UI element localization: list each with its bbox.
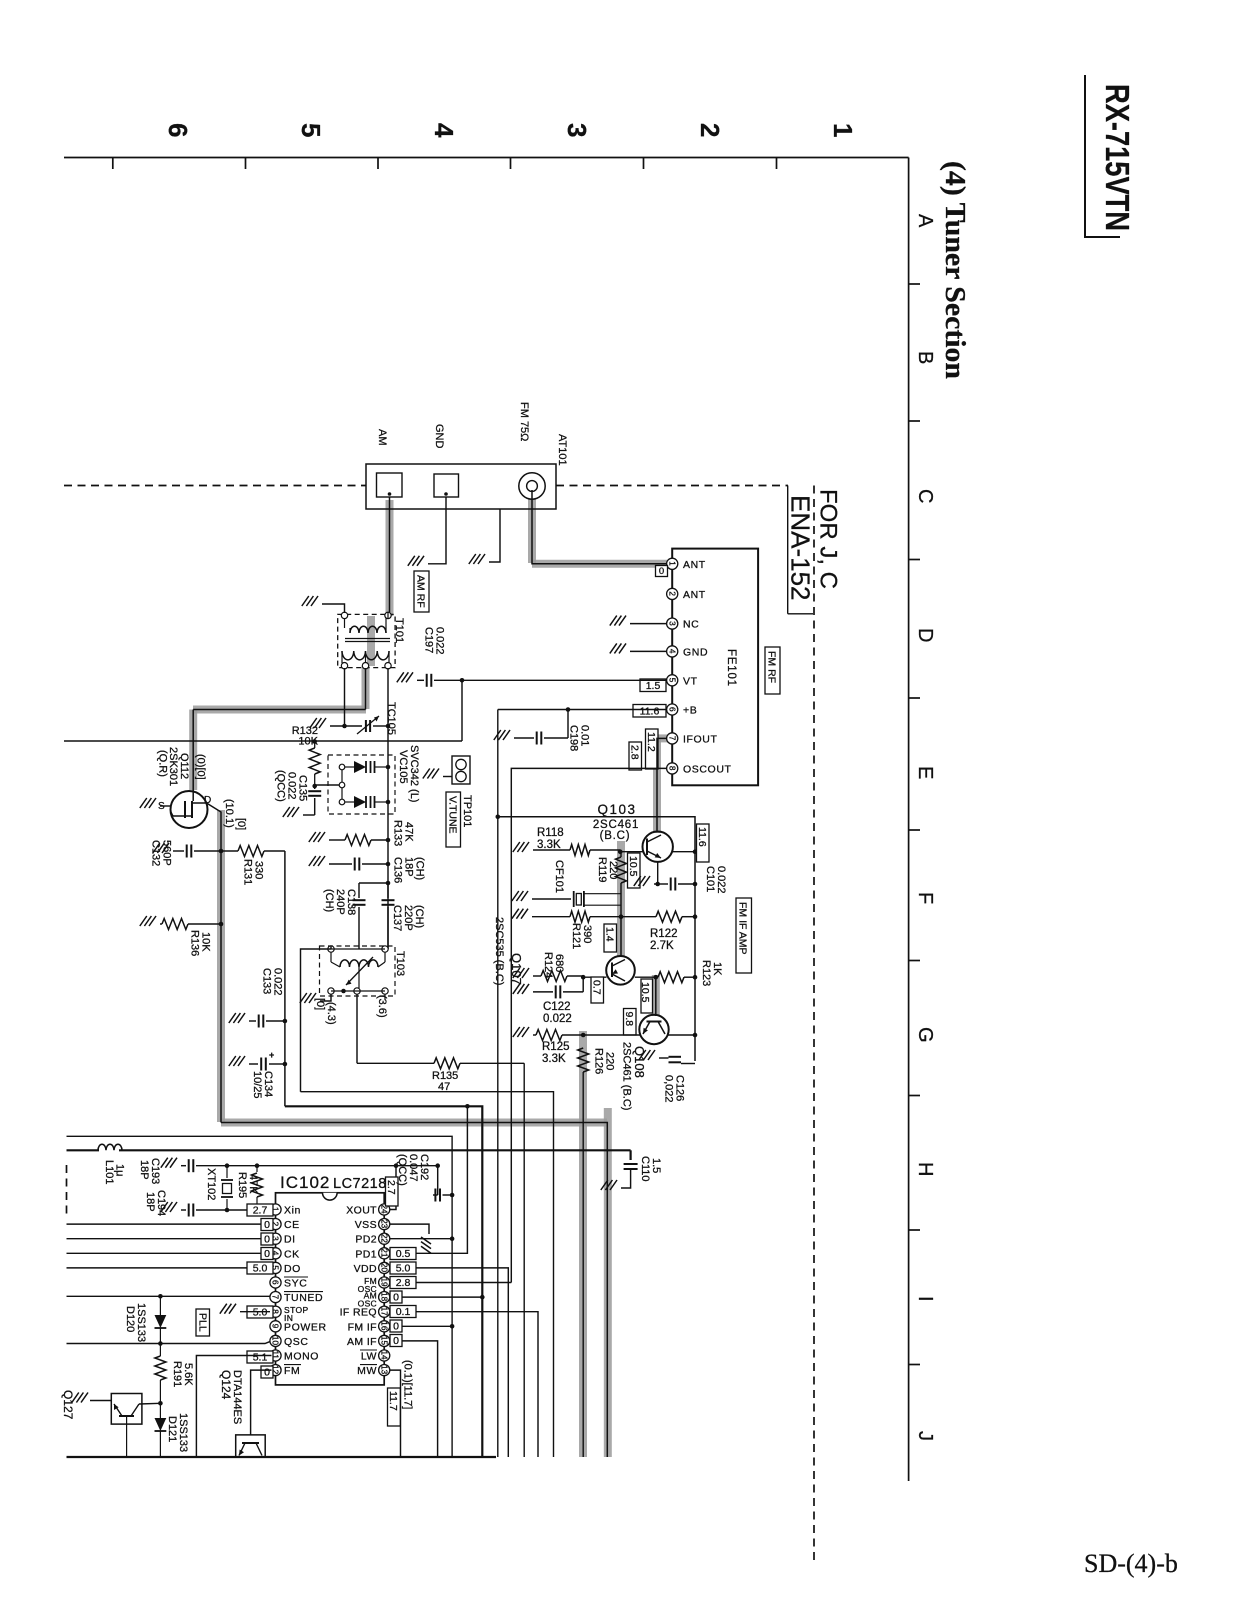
wire IF REQ (390, 1312, 539, 1457)
T103 pins (328, 946, 388, 994)
wire +B rail to collector rail (496, 815, 696, 1062)
wire VC105 tap to C135 node (315, 784, 339, 786)
grid letter E (914, 766, 936, 779)
ground R125 (513, 1027, 529, 1037)
resistor R121 (532, 911, 623, 922)
ground R136 (140, 916, 156, 926)
capacitor C138 (353, 900, 366, 949)
wire FM OSC line to C110 (629, 1150, 631, 1160)
test point TP101 (452, 756, 470, 784)
svg-text:PD2: PD2 (355, 1234, 377, 1246)
FE101 pin 4 GND (667, 646, 709, 659)
svg-text:DO: DO (284, 1263, 301, 1275)
label C193 18P (138, 1158, 161, 1184)
svg-text:C101: C101 (704, 866, 716, 892)
svg-text:C122: C122 (543, 1001, 571, 1013)
IC102 pin 10 QSC (270, 1335, 309, 1348)
wire MW (390, 1370, 401, 1457)
svg-text:TUNED: TUNED (284, 1292, 323, 1304)
model name RX-715VTN (1099, 84, 1136, 231)
svg-text:A: A (914, 214, 936, 228)
svg-text:Q124: Q124 (219, 1370, 233, 1400)
svg-text:R126: R126 (593, 1048, 605, 1074)
dashed boundary right edge (813, 486, 815, 1561)
label C136 18P (CH) (392, 857, 426, 883)
wire Q112 drain highlighted trace (221, 810, 608, 1457)
svg-text:11.6: 11.6 (640, 706, 660, 718)
svg-text:SD-(4)-b: SD-(4)-b (1084, 1549, 1178, 1578)
svg-text:5.0: 5.0 (253, 1307, 268, 1319)
wire C197 to VT node (434, 678, 464, 683)
svg-text:13: 13 (379, 1365, 388, 1375)
wire T103 path corner (301, 1092, 554, 1457)
crystal XT102 (221, 1166, 233, 1210)
grid letter G (914, 1027, 936, 1043)
wire AM terminal to T101 (389, 497, 391, 612)
grid number 4 (429, 123, 459, 138)
IC102 pin 17 IF REQ (340, 1306, 390, 1319)
varactor diodes VC105 (342, 761, 388, 808)
wire AM antenna highlighted trace (386, 500, 394, 616)
svg-text:R133: R133 (392, 820, 404, 846)
label AT101 (556, 434, 568, 466)
FM antenna connector AT101 (519, 473, 545, 499)
wire FM antenna highlighted trace (532, 489, 668, 564)
border tick row 4 (909, 829, 920, 831)
svg-text:2SC535 (B.C): 2SC535 (B.C) (493, 917, 505, 985)
wire AM OSC (390, 1295, 485, 1300)
svg-text:(3.6): (3.6) (376, 995, 388, 1018)
wire STOP to ground (240, 1311, 270, 1313)
label D121 1SS133 (166, 1413, 189, 1452)
label C122 0.022 (543, 1001, 572, 1025)
svg-text:IFOUT: IFOUT (683, 733, 718, 745)
wire T101 bottom-center to gate line (365, 668, 367, 710)
label FE101 (725, 649, 737, 687)
svg-text:10K: 10K (200, 932, 212, 952)
IC102 pin 14 LW (360, 1350, 390, 1363)
border tick column 4 (643, 158, 645, 170)
FE101 pin 6 +B (667, 704, 698, 717)
capacitor C197 (427, 674, 432, 687)
resistor R133 (329, 835, 390, 846)
FM front end FE101 box (672, 549, 758, 786)
svg-text:C: C (914, 489, 936, 503)
svg-text:17: 17 (379, 1307, 388, 1317)
transistor Q124 (236, 1435, 266, 1457)
svg-text:18: 18 (379, 1292, 388, 1302)
svg-text:10.5: 10.5 (639, 982, 651, 1003)
grid number 6 (163, 123, 193, 137)
transformer T101 primary winding (350, 626, 386, 633)
ground T103 (300, 993, 316, 1003)
label [0] (4.3) (314, 998, 337, 1025)
svg-text:0: 0 (659, 566, 664, 577)
voltage box 0 at CE (261, 1219, 273, 1232)
svg-text:18P: 18P (144, 1192, 156, 1212)
wire GND terminal to ground (428, 497, 446, 564)
svg-text:(0)[0]: (0)[0] (195, 754, 207, 780)
wire T101 top-left to ground (322, 604, 345, 613)
svg-text:0.022: 0.022 (272, 968, 284, 996)
resistor R118 (533, 845, 620, 856)
IC102 pin 15 AM IF (347, 1335, 390, 1348)
voltage box 0 at AM IF (390, 1335, 402, 1348)
svg-text:6: 6 (271, 1280, 280, 1285)
svg-text:5: 5 (667, 678, 676, 683)
svg-text:11.7: 11.7 (387, 1391, 399, 1411)
capacitor C134 electrolytic (249, 1050, 287, 1071)
page label SD-(4)-b (1084, 1549, 1178, 1578)
svg-text:10.5: 10.5 (627, 856, 639, 877)
wire C135 to ground (303, 814, 315, 816)
svg-text:FM 75Ω: FM 75Ω (518, 402, 530, 441)
wire FE101 +B to rail (498, 709, 667, 711)
svg-text:1SS133: 1SS133 (177, 1413, 189, 1452)
voltage box 2.8 at FM OSC (390, 1277, 416, 1290)
svg-text:R124: R124 (542, 952, 554, 978)
label FM 75ohm (518, 402, 530, 441)
ground GND terminal (408, 556, 424, 566)
wire T103 top-left to left rail (301, 949, 332, 1092)
svg-text:0: 0 (393, 1321, 399, 1333)
svg-text:6: 6 (163, 123, 193, 137)
wire CE bus line (67, 1223, 263, 1225)
svg-text:5.1: 5.1 (253, 1352, 268, 1364)
wire FM OSC bus line (67, 1149, 100, 1151)
diode D121 (155, 1403, 167, 1457)
voltage box 5.1 at MONO (247, 1351, 273, 1364)
label ENA-152 (786, 495, 816, 601)
ground R118 (513, 842, 529, 852)
wire FM connector to FE101 ANT (532, 490, 667, 564)
wire T101 bottom-left to TC105 line (342, 668, 347, 728)
svg-text:OSCOUT: OSCOUT (683, 763, 732, 775)
label Q112 2SK301 (Q.R) (157, 747, 191, 786)
label box ENA-152 bottom edge (788, 613, 813, 615)
wire T103 bottom-right stub (384, 994, 386, 1000)
ground C133 (229, 1013, 245, 1023)
label L101 1u (103, 1160, 126, 1184)
wire T103 left pin (330, 946, 332, 949)
grid letter C (914, 489, 936, 503)
svg-text:PLL: PLL (197, 1313, 209, 1332)
label Q108 2SC461 (B.C) (621, 1042, 648, 1110)
grid letter H (914, 1162, 936, 1176)
label Q124 DTA144ES (219, 1370, 243, 1424)
label AM RF box (414, 571, 429, 612)
label R119 220 (596, 857, 619, 882)
label C101 0.022 (704, 866, 727, 894)
T101 top-right pin (385, 612, 391, 633)
label R136 10K (189, 930, 212, 956)
svg-text:CE: CE (284, 1219, 300, 1231)
VC105 left terminals (339, 764, 345, 805)
label Q103 (597, 802, 636, 817)
voltage box 0 at DI (261, 1233, 273, 1246)
IC102 pin 11 MONO (270, 1350, 319, 1363)
inductor L101 (98, 1144, 122, 1150)
transformer T101 box (338, 614, 395, 667)
IC102 pin 13 MW (357, 1365, 390, 1378)
svg-text:0.01: 0.01 (579, 725, 591, 746)
IC102 pin 22 PD2 (355, 1233, 389, 1246)
svg-text:10: 10 (271, 1336, 280, 1346)
capacitor C198 (514, 707, 570, 744)
svg-text:22: 22 (379, 1234, 388, 1244)
label FM IF AMP box (736, 898, 752, 973)
label FOR J, C (815, 489, 842, 589)
svg-text:1.4: 1.4 (604, 927, 616, 942)
resistor R125 (533, 1030, 583, 1041)
svg-text:VT: VT (683, 675, 698, 687)
wire MONO (196, 1356, 271, 1458)
wire XOUT riser (390, 1166, 397, 1210)
svg-text:MONO: MONO (284, 1351, 319, 1363)
svg-text:LW: LW (361, 1351, 377, 1363)
svg-text:2.8: 2.8 (629, 745, 641, 760)
capacitor C193 (181, 1159, 227, 1172)
wire TUNED bus line (67, 1295, 272, 1297)
grid letter F (914, 892, 936, 904)
wire Q112 source to ground (160, 805, 172, 807)
label R133 47K (392, 820, 415, 846)
svg-text:CK: CK (284, 1248, 300, 1260)
ground FE101 GND (610, 643, 626, 653)
wire Q103 base left (618, 849, 643, 854)
svg-text:7: 7 (667, 736, 676, 741)
transformer T103 box (320, 946, 396, 996)
svg-text:D120: D120 (124, 1306, 136, 1332)
svg-text:FM: FM (284, 1365, 300, 1377)
IC102 pin 7 TUNED (270, 1292, 323, 1305)
svg-text:0.022: 0.022 (543, 1013, 572, 1025)
svg-text:C132: C132 (150, 840, 162, 866)
svg-text:0: 0 (264, 1219, 270, 1231)
label C137 220P (CH) (391, 905, 425, 931)
label T103 (394, 951, 406, 976)
wire CK bus line (67, 1252, 263, 1254)
svg-text:5.6K: 5.6K (182, 1363, 194, 1386)
svg-text:1μ: 1μ (114, 1164, 126, 1176)
antenna terminal AT101 box (366, 464, 556, 509)
svg-text:SVC342 (L): SVC342 (L) (408, 745, 420, 802)
svg-text:D121: D121 (166, 1416, 178, 1442)
wire T101 bottom-right down (387, 668, 389, 949)
wire FE101 IFOUT to Q103 (657, 738, 667, 832)
wire FE101 GND to ground (630, 650, 667, 652)
svg-text:9.8: 9.8 (623, 1012, 635, 1027)
voltage box 5.0 at DO (247, 1262, 273, 1275)
svg-text:330: 330 (253, 861, 265, 879)
svg-text:LC7218: LC7218 (333, 1176, 387, 1192)
svg-text:J: J (914, 1431, 936, 1441)
transformer T101 core (345, 639, 390, 642)
svg-text:VDD: VDD (354, 1263, 377, 1275)
wire FM to Q124 (251, 1370, 272, 1435)
svg-text:2.7: 2.7 (385, 1180, 397, 1195)
voltage box 11.6 at FE101 +B (633, 705, 666, 718)
wire Xin from xtal line (271, 1209, 273, 1212)
label XT102 (205, 1168, 217, 1200)
border tick row 3 (909, 697, 920, 699)
capacitor C192 (433, 1189, 454, 1202)
resistor R191 (155, 1344, 166, 1406)
svg-text:D: D (914, 628, 936, 642)
voltage box 11.7 at MW (387, 1388, 400, 1426)
border tick row 5 (909, 960, 920, 962)
wire QSC bus line (67, 1341, 272, 1344)
svg-text:NC: NC (683, 619, 699, 631)
svg-text:+: + (269, 1050, 274, 1060)
svg-text:C133: C133 (261, 968, 273, 994)
label LC7218 (333, 1176, 387, 1192)
label [0] at Q112 (235, 818, 247, 830)
label C194 18P (144, 1190, 167, 1216)
svg-text:5.0: 5.0 (396, 1263, 411, 1275)
voltage box 5.0 at STOP (247, 1306, 273, 1319)
voltage box 10.5 at Q103 (627, 853, 640, 888)
ground R133 (309, 832, 325, 842)
voltage box 2.7 at Xin (247, 1204, 273, 1217)
svg-text:MW: MW (357, 1365, 377, 1377)
svg-text:16: 16 (379, 1321, 388, 1331)
svg-text:R123: R123 (700, 960, 712, 986)
IC102 pin 18 AMOSC (358, 1291, 390, 1309)
IC102 pin 24 XOUT (346, 1204, 390, 1217)
ground C101 (634, 876, 650, 886)
ground FM shell (469, 554, 485, 564)
wire TP101 to ground (443, 776, 452, 778)
resistor R119 (616, 852, 627, 957)
svg-text:V.TUNE: V.TUNE (447, 796, 459, 834)
capacitor C122 (533, 977, 583, 998)
svg-text:DTA144ES: DTA144ES (231, 1370, 243, 1424)
grid number 5 (296, 123, 326, 137)
svg-text:R195: R195 (236, 1172, 248, 1198)
wire R135 path corner (523, 1063, 525, 1457)
border tick column 3 (510, 158, 512, 170)
wire R131 node down (284, 851, 286, 1106)
svg-text:(CH): (CH) (323, 889, 335, 912)
voltage box 0 at FM (261, 1366, 273, 1379)
ground C122 (513, 984, 529, 994)
svg-text:T101: T101 (393, 618, 405, 643)
wire PD1 (390, 1104, 470, 1253)
svg-text:IF REQ: IF REQ (340, 1307, 377, 1319)
capacitor C137 (382, 883, 395, 949)
svg-text:R191: R191 (171, 1361, 183, 1387)
wire TC105 to T101 right line (373, 724, 390, 729)
svg-text:FM RF: FM RF (766, 651, 778, 683)
svg-text:1.5: 1.5 (646, 680, 661, 692)
svg-text:Q127: Q127 (61, 1390, 75, 1420)
ground C197 (397, 672, 413, 682)
voltage box 5.0 at VDD (390, 1262, 416, 1275)
label C192 0.047 (QCC) (396, 1154, 430, 1186)
wire R126 highlighted trace (579, 1031, 587, 1457)
wire Q103 collector right (673, 849, 698, 854)
transistor Q108 (639, 1015, 668, 1044)
svg-text:I: I (914, 1296, 936, 1302)
wire C197 to ground (417, 679, 424, 681)
voltage box 0 at FM IF (390, 1320, 402, 1333)
voltage box 9.8 at Q108 (623, 1009, 636, 1036)
svg-text:FM IF: FM IF (348, 1321, 377, 1333)
svg-text:C198: C198 (568, 725, 580, 751)
label R123 1K (700, 960, 723, 986)
svg-text:6: 6 (667, 707, 676, 712)
label (0)[0] (195, 754, 207, 780)
svg-text:C136: C136 (392, 857, 404, 883)
node C137 C138 (386, 881, 391, 886)
svg-text:0.1: 0.1 (396, 1306, 411, 1318)
svg-text:RX-715VTN: RX-715VTN (1099, 84, 1136, 231)
svg-text:E: E (914, 766, 936, 779)
svg-text:19: 19 (379, 1278, 388, 1288)
ground T101 top-left (302, 596, 318, 606)
voltage box 0.1 at IF REQ (390, 1306, 416, 1319)
ground VSS (421, 1237, 431, 1253)
label (10.1) (223, 799, 235, 828)
IC102 pin 9 POWER (270, 1321, 327, 1334)
svg-text:390: 390 (581, 925, 593, 943)
label C198 0.01 (568, 725, 591, 751)
svg-text:R131: R131 (242, 859, 254, 885)
svg-text:20: 20 (379, 1263, 388, 1273)
wire bus line 1 (67, 1136, 453, 1457)
label C126 0,022 (663, 1075, 686, 1103)
label C133 0.022 (261, 968, 284, 996)
ground CF101 (512, 891, 528, 901)
wire FE101 NC to ground (630, 623, 667, 625)
border tick column 5 (776, 158, 778, 170)
wire T101 secondary highlighted trace (367, 616, 375, 666)
svg-text:5: 5 (296, 123, 326, 137)
label R124 680 (542, 952, 565, 978)
svg-text:PD1: PD1 (355, 1248, 377, 1260)
svg-text:POWER: POWER (284, 1321, 327, 1333)
svg-text:AM IF: AM IF (347, 1336, 377, 1348)
wire Q108 collector right (668, 1033, 698, 1038)
label (B.C) (600, 830, 631, 842)
svg-text:0.5: 0.5 (396, 1248, 411, 1260)
FE101 pin 7 IFOUT (667, 733, 718, 746)
FE101 pin 1 ANT (667, 558, 706, 571)
resistor R126 (578, 1048, 589, 1457)
border frame top edge (64, 157, 909, 159)
ground C194 (161, 1202, 177, 1212)
IC102 pin 23 VSS (355, 1219, 390, 1232)
svg-text:220P: 220P (402, 905, 414, 931)
wire FM OSC to OSCOUT (390, 1282, 512, 1284)
capacitor C135 (308, 784, 321, 815)
wire FM shell to ground (489, 509, 500, 562)
grid number 1 (828, 123, 858, 137)
label Q107 (509, 953, 524, 985)
dashed boundary left edge segment (66, 1165, 68, 1215)
svg-text:2.7: 2.7 (253, 1205, 268, 1217)
label Q112 S (158, 801, 165, 812)
label R191 5.6K (171, 1361, 194, 1387)
label R132 10K (292, 725, 319, 748)
wire AM IF (390, 1341, 438, 1457)
svg-text:0: 0 (393, 1335, 399, 1347)
wire Q112 drain down (207, 803, 222, 1123)
voltage box 2.8 at FE101 OSCOUT (629, 742, 642, 770)
diode D120 (155, 1294, 167, 1346)
border tick column 0 (112, 158, 114, 170)
